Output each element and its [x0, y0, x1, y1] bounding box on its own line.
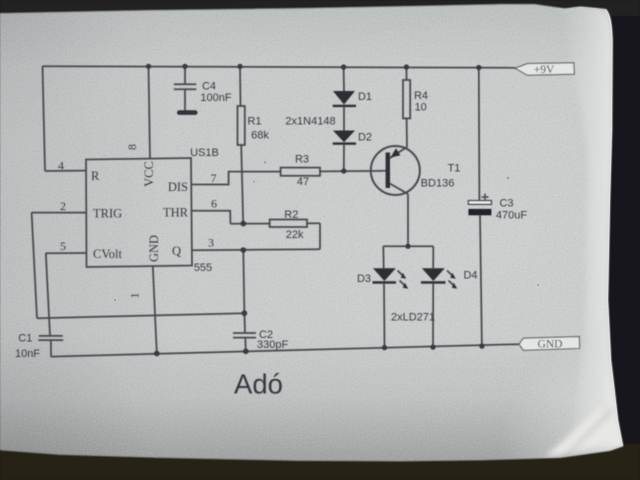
- wire C2 bottom: [244, 338, 247, 352]
- svg-text:22k: 22k: [286, 229, 304, 241]
- wire D3 bottom: [383, 284, 386, 348]
- svg-text:68k: 68k: [251, 130, 269, 142]
- node dot rail-R1: [237, 64, 242, 69]
- transistor T1 base bar: [386, 153, 390, 189]
- node dot rail-pin8: [146, 64, 151, 69]
- resistor R2 body: [270, 220, 307, 228]
- resistor R3 body: [281, 168, 320, 176]
- svg-text:R1: R1: [247, 116, 261, 128]
- svg-text:47: 47: [297, 176, 309, 188]
- LED D4 arrows: [447, 271, 455, 287]
- resistor R4 body: [403, 80, 410, 118]
- wire C1 bottom: [50, 340, 52, 357]
- svg-text:Q: Q: [172, 244, 181, 258]
- node dot gnd-pin1: [154, 351, 160, 357]
- node dot rail-D1: [341, 64, 346, 69]
- svg-text:C3: C3: [499, 198, 513, 210]
- wire D2 to base node: [343, 145, 345, 171]
- svg-text:D4: D4: [463, 270, 477, 282]
- transistor T1 collector line: [390, 184, 408, 195]
- wire pin 8 VCC: [149, 66, 151, 159]
- svg-text:TRIG: TRIG: [93, 207, 122, 221]
- wire R1 top stub: [239, 66, 242, 106]
- svg-text:R3: R3: [295, 153, 309, 165]
- +9V top rail wire: [43, 66, 516, 68]
- svg-text:2xLD271: 2xLD271: [391, 312, 435, 324]
- svg-text:+9V: +9V: [534, 64, 555, 76]
- wire R1 bottom to THR node: [241, 145, 243, 224]
- C3 plus sign: [482, 194, 489, 201]
- svg-text:5: 5: [60, 239, 66, 253]
- svg-text:8: 8: [125, 144, 139, 150]
- svg-text:555: 555: [194, 262, 212, 274]
- wire left drop to pin 4: [43, 66, 46, 171]
- node dot gnd-C2: [243, 349, 249, 355]
- wire D3 top stub: [382, 246, 384, 268]
- node dot base: [341, 168, 346, 173]
- wire pin 2 TRIG: [32, 212, 86, 214]
- node dot rail-C4: [182, 64, 187, 69]
- net tag +9V: [515, 63, 574, 76]
- wire pin 1 GND: [153, 266, 157, 354]
- ground bar under C4: [177, 110, 198, 115]
- svg-text:THR: THR: [163, 206, 189, 220]
- svg-text:10nF: 10nF: [15, 348, 40, 360]
- node dot out-C2: [241, 247, 247, 253]
- svg-text:6: 6: [211, 197, 217, 211]
- node dot rail-R4: [404, 64, 409, 69]
- transistor T1 emitter arrow: [391, 148, 401, 157]
- svg-text:10: 10: [415, 102, 427, 114]
- wire D4 top stub: [432, 246, 434, 268]
- wire pin 6 THR: [192, 211, 231, 224]
- node dot rail-C3: [476, 65, 481, 70]
- transistor T1 emitter line: [390, 147, 407, 158]
- transistor T1 circle: [371, 146, 420, 195]
- node dot collector-bus: [405, 244, 410, 249]
- wire diode chain top: [343, 67, 345, 91]
- node dot TRIG-C2: [242, 310, 248, 316]
- wire C3 top: [478, 68, 481, 201]
- svg-text:2: 2: [60, 199, 66, 213]
- svg-text:100nF: 100nF: [200, 92, 231, 104]
- svg-text:C4: C4: [202, 81, 216, 93]
- corner fold crease: [543, 410, 612, 479]
- op-amp U1 555 IC body: [86, 158, 192, 267]
- wire pin 5 CVolt: [46, 252, 86, 254]
- svg-text:R2: R2: [284, 209, 298, 221]
- wire LED bus: [383, 245, 433, 247]
- wire pin 3 output: [192, 249, 320, 250]
- svg-text:T1: T1: [448, 163, 461, 175]
- wire pin 7 DIS: [192, 172, 281, 185]
- photo specks: [114, 161, 539, 301]
- wire C1 top: [46, 253, 50, 335]
- svg-text:D1: D1: [358, 91, 372, 103]
- wire R2 right: [307, 222, 320, 224]
- svg-text:US1B: US1B: [190, 147, 219, 159]
- node dot gnd-D3: [382, 345, 387, 350]
- wire C2 mid: [243, 313, 246, 333]
- wire C2 top: [243, 250, 244, 313]
- node dot THR-R1-R2: [241, 221, 247, 227]
- node dot gnd-C3: [479, 344, 484, 349]
- net tag GND: [519, 337, 580, 351]
- curled bottom-right corner highlight: [545, 406, 618, 457]
- svg-text:2x1N4148: 2x1N4148: [285, 116, 335, 128]
- wire R4 to emitter: [406, 118, 408, 147]
- svg-text:470uF: 470uF: [496, 210, 527, 222]
- LED D3 arrows: [398, 271, 406, 287]
- svg-text:R4: R4: [414, 90, 428, 102]
- svg-text:VCC: VCC: [142, 161, 156, 187]
- paper right edge rim highlight: [543, 0, 623, 479]
- svg-text:GND: GND: [538, 338, 563, 350]
- resistor R1 body: [238, 106, 245, 145]
- wire TRIG to C2 node: [37, 313, 244, 318]
- capacitor C2 plates: [233, 333, 256, 338]
- svg-text:330pF: 330pF: [257, 339, 288, 351]
- wire R4 top stub: [405, 67, 407, 80]
- wire C3 bottom: [480, 215, 482, 346]
- wire D4 bottom: [432, 284, 434, 348]
- svg-text:7: 7: [211, 171, 217, 185]
- svg-text:Adó: Adó: [234, 369, 283, 400]
- GND bottom rail wire: [51, 344, 519, 356]
- wire D1-D2: [343, 107, 345, 130]
- node dot gnd-D4: [430, 345, 435, 350]
- wire R3 to base: [320, 170, 386, 173]
- bright right edge highlight of paper: [560, 0, 623, 455]
- svg-text:BD136: BD136: [421, 177, 455, 189]
- capacitor C4 plates: [174, 84, 197, 89]
- wire collector down: [407, 194, 409, 246]
- paper top edge bevel highlight: [552, 2, 603, 10]
- diode D2: [333, 131, 355, 143]
- svg-text:D2: D2: [358, 131, 372, 143]
- wire pin 4: [45, 170, 86, 172]
- LED D4: [422, 268, 445, 281]
- svg-text:1: 1: [127, 293, 141, 299]
- svg-text:CVolt: CVolt: [93, 247, 122, 261]
- diode D1: [333, 91, 355, 105]
- capacitor C3 bottom plate: [468, 209, 491, 215]
- wire R2 left to node: [230, 223, 269, 225]
- LED D3: [373, 268, 396, 281]
- svg-text:D3: D3: [357, 273, 371, 285]
- svg-text:GND: GND: [147, 235, 161, 262]
- svg-text:DIS: DIS: [168, 180, 188, 194]
- svg-text:3: 3: [208, 236, 214, 250]
- svg-text:R: R: [91, 169, 100, 183]
- wire up to R2 right: [319, 223, 321, 249]
- svg-text:4: 4: [58, 159, 64, 173]
- wire TRIG down: [32, 213, 37, 319]
- capacitor C3 top plate: [468, 201, 491, 205]
- svg-text:C1: C1: [18, 332, 32, 344]
- capacitor C1 plates: [38, 336, 63, 340]
- wire C4 branch: [184, 66, 186, 110]
